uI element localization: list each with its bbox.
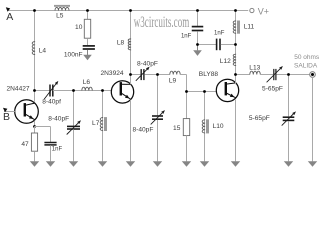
- svg-text:L7: L7: [92, 120, 100, 127]
- svg-text:1nF: 1nF: [181, 34, 192, 40]
- svg-text:15: 15: [173, 125, 181, 132]
- svg-text:B: B: [3, 111, 10, 123]
- svg-text:50 ohms: 50 ohms: [294, 54, 320, 61]
- svg-text:L9: L9: [169, 78, 177, 85]
- svg-text:1nF: 1nF: [52, 146, 63, 152]
- svg-text:L4: L4: [39, 48, 47, 55]
- svg-text:L13: L13: [249, 65, 260, 72]
- svg-text:w3circuits.com: w3circuits.com: [134, 14, 190, 31]
- svg-text:L11: L11: [244, 24, 255, 31]
- svg-text:5-65pF: 5-65pF: [262, 86, 283, 93]
- svg-text:10: 10: [75, 24, 83, 31]
- svg-text:L6: L6: [83, 79, 91, 86]
- svg-text:8-40pf: 8-40pf: [42, 99, 61, 106]
- svg-text:A: A: [6, 11, 13, 23]
- svg-text:L12: L12: [220, 58, 231, 65]
- svg-text:47: 47: [21, 141, 29, 148]
- svg-text:8-40pF: 8-40pF: [48, 116, 69, 123]
- svg-text:8-40pF: 8-40pF: [137, 61, 158, 68]
- svg-text:L10: L10: [213, 123, 224, 130]
- svg-text:1nF: 1nF: [214, 30, 225, 36]
- svg-text:L8: L8: [117, 39, 125, 46]
- svg-text:L5: L5: [56, 13, 64, 20]
- svg-text:8-40pF: 8-40pF: [132, 127, 153, 134]
- svg-text:SALIDA: SALIDA: [294, 63, 318, 70]
- svg-text:2N3924: 2N3924: [101, 70, 124, 77]
- svg-text:V+: V+: [258, 6, 269, 16]
- svg-text:100nF: 100nF: [64, 51, 83, 58]
- svg-text:2N4427: 2N4427: [7, 86, 30, 93]
- svg-text:5-65pF: 5-65pF: [249, 115, 270, 122]
- svg-text:BLY88: BLY88: [199, 71, 219, 78]
